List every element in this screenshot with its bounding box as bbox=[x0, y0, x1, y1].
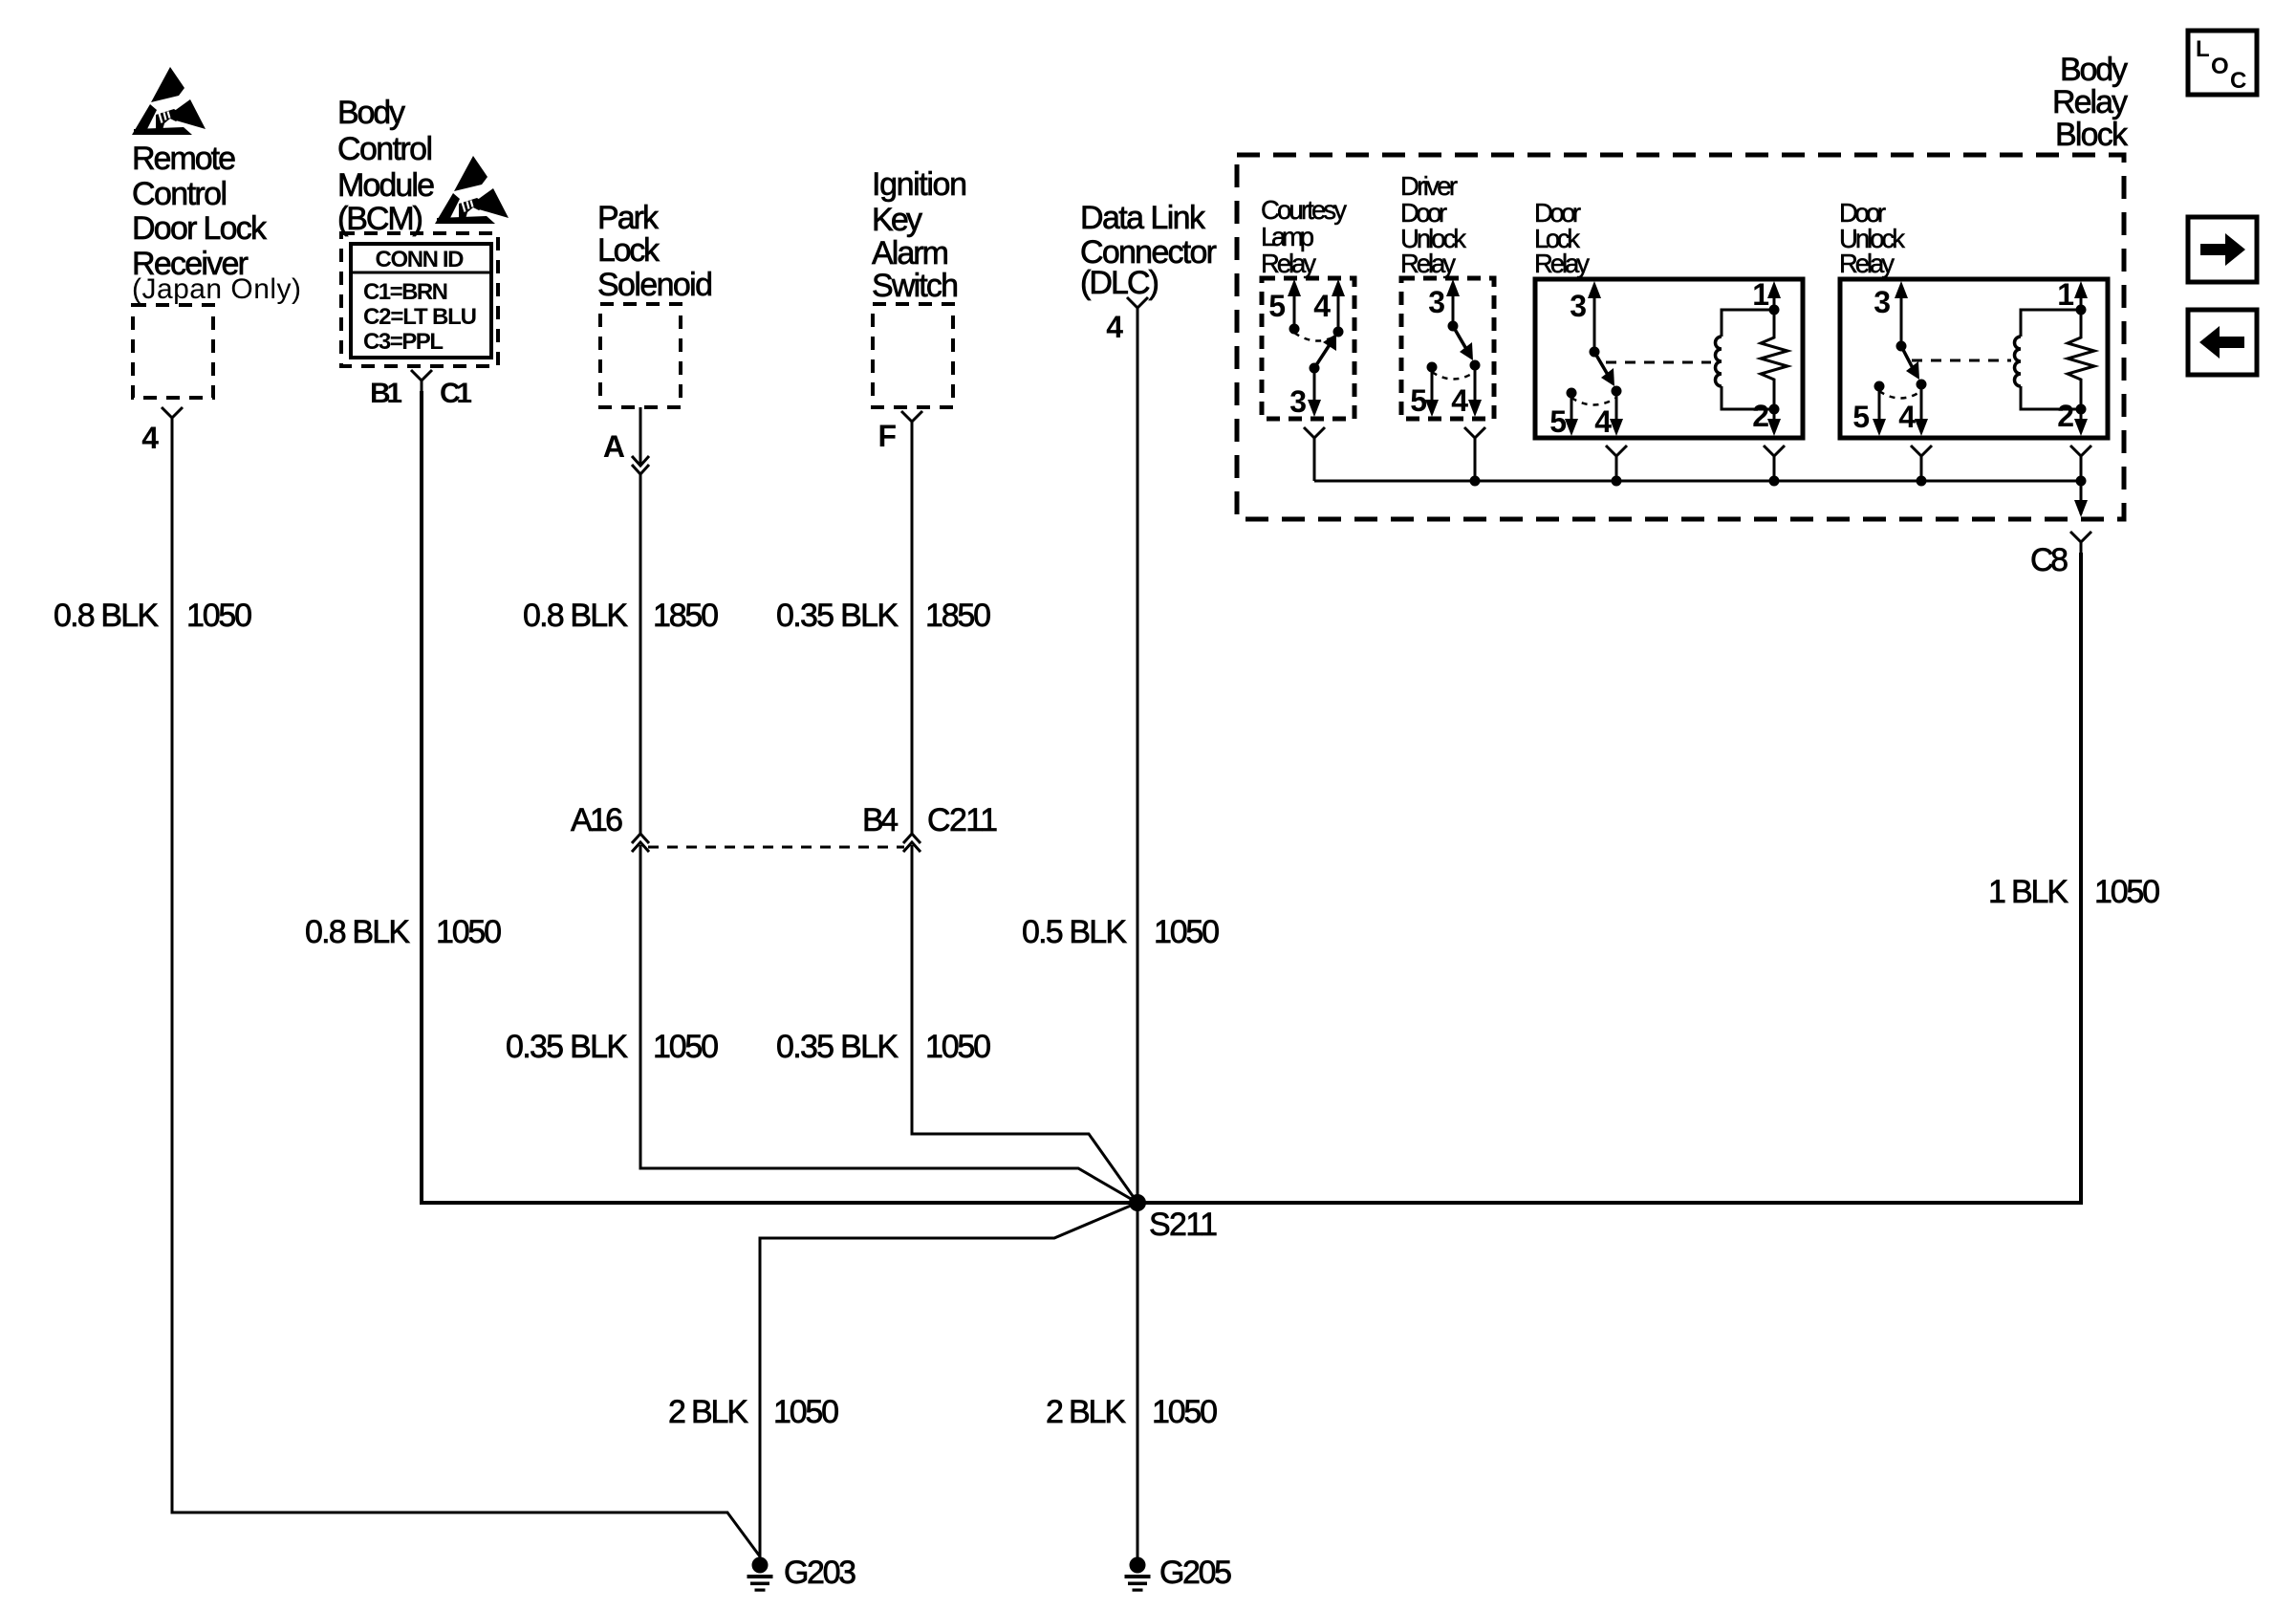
svg-text:(Japan Only): (Japan Only) bbox=[132, 273, 301, 305]
junction dot K2 bus bbox=[1470, 476, 1481, 487]
wire: K3 pin 4 to relay block bus bbox=[1615, 467, 1618, 481]
K4 coil coupling line (dashed) bbox=[1912, 359, 2011, 362]
junction dot K4 pin2 bus bbox=[2076, 476, 2087, 487]
svg-text:Driver: Driver bbox=[1400, 171, 1458, 201]
wire: switch F down to B4 (0.35 BLK 1850) bbox=[911, 432, 914, 834]
K1 pin 4 lead with up arrow bbox=[1332, 279, 1345, 337]
svg-text:5: 5 bbox=[1852, 400, 1870, 434]
junction dot K4 pin4 bus bbox=[1917, 476, 1927, 487]
wire: solenoid lead down to connector A bbox=[639, 407, 642, 466]
ground G205 bbox=[1125, 1557, 1151, 1592]
svg-text:1850: 1850 bbox=[925, 598, 991, 634]
K2 contact coupling arc (dashed) bbox=[1432, 372, 1475, 380]
svg-text:S211: S211 bbox=[1149, 1207, 1218, 1243]
wire: A16 down to S211 (0.35 BLK 1050) bbox=[640, 845, 1137, 1203]
svg-text:3: 3 bbox=[1289, 384, 1307, 419]
CONN ID table bbox=[351, 244, 491, 358]
K4 coil bbox=[2015, 310, 2082, 409]
svg-text:(DLC): (DLC) bbox=[1080, 265, 1159, 301]
svg-text:B4: B4 bbox=[862, 802, 899, 838]
svg-text:Relay: Relay bbox=[1534, 249, 1590, 278]
K4 contact coupling arc (dashed) bbox=[1879, 391, 1921, 399]
svg-text:0.35 BLK: 0.35 BLK bbox=[776, 1029, 899, 1065]
ground G203 bbox=[747, 1557, 773, 1592]
svg-text:0.35 BLK: 0.35 BLK bbox=[506, 1029, 628, 1065]
label: Body Relay Block bbox=[2052, 52, 2129, 153]
K4 pin 1 / pin 2 lead bbox=[2074, 281, 2088, 436]
svg-text:1050: 1050 bbox=[925, 1029, 991, 1065]
connector half Y under K1 pin 3 bbox=[1304, 427, 1325, 448]
wire: S211 branch to ground G203 (2 BLK 1050) bbox=[760, 1203, 1137, 1560]
wire label 0.8 BLK | 1050 (receiver) bbox=[54, 598, 252, 634]
svg-text:Remote: Remote bbox=[132, 141, 236, 177]
wire label 0.5 BLK | 1050 (DLC) bbox=[1022, 914, 1220, 950]
svg-text:Key: Key bbox=[872, 202, 922, 238]
wire: DLC pin 4 down to ground G205 (0.5 BLK / 2 BLK 1050) bbox=[1137, 318, 1139, 1557]
relay K2: Driver Door Unlock Relay (dashed box) bbox=[1401, 278, 1494, 419]
relay block ground bus wire bbox=[1314, 480, 2081, 483]
K1 switch arm with arrowhead bbox=[1310, 334, 1337, 374]
wire label 2 BLK | 1050 (G203 branch) bbox=[668, 1394, 839, 1430]
legend arrow box (right) bbox=[2188, 217, 2257, 282]
inline connector chevrons at A16 bbox=[632, 834, 649, 852]
K3 contact coupling arc (dashed) bbox=[1571, 398, 1616, 405]
svg-text:Block: Block bbox=[2055, 117, 2129, 153]
svg-text:1850: 1850 bbox=[653, 598, 719, 634]
svg-text:B1: B1 bbox=[370, 378, 402, 409]
wire: K2 pin 4 to relay block bus bbox=[1474, 448, 1477, 481]
wire: K3 pin 2 to relay block bus bbox=[1773, 467, 1776, 481]
svg-text:0.5 BLK: 0.5 BLK bbox=[1022, 914, 1127, 950]
wire label 0.35 BLK | 1050 (solenoid lower) bbox=[506, 1029, 719, 1065]
svg-text:C1=BRN: C1=BRN bbox=[363, 279, 448, 305]
label: Driver Door Unlock Relay bbox=[1400, 171, 1466, 278]
svg-text:Lamp: Lamp bbox=[1261, 222, 1314, 251]
svg-text:0.8 BLK: 0.8 BLK bbox=[523, 598, 628, 634]
svg-text:1: 1 bbox=[1752, 277, 1769, 312]
inline connector chevrons at A bbox=[632, 456, 649, 474]
svg-text:4: 4 bbox=[1594, 404, 1612, 439]
wire label 0.8 BLK | 1050 (BCM) bbox=[305, 914, 502, 950]
junction dot K3 pin4 bus bbox=[1612, 476, 1622, 487]
svg-text:Lock: Lock bbox=[597, 232, 661, 269]
K1 contact coupling arc (dashed) bbox=[1294, 333, 1338, 341]
relay K1: Courtesy Lamp Relay (dashed box) bbox=[1262, 278, 1354, 419]
svg-text:Body: Body bbox=[337, 95, 405, 131]
svg-text:C211: C211 bbox=[927, 802, 998, 838]
connector half Y at C8 bbox=[2070, 532, 2091, 553]
K2 pin 3 lead with up arrow bbox=[1446, 279, 1460, 332]
connector half Y at DLC pin 4 bbox=[1127, 297, 1148, 318]
label: Data Link Connector (DLC) bbox=[1080, 200, 1217, 301]
connector half Y under K3 pin 2 bbox=[1764, 446, 1785, 467]
svg-text:Ignition: Ignition bbox=[872, 166, 967, 203]
K4 switch arm with arrowhead bbox=[1901, 346, 1927, 390]
svg-text:C: C bbox=[2230, 68, 2246, 94]
svg-text:1: 1 bbox=[2057, 277, 2074, 312]
svg-text:1050: 1050 bbox=[186, 598, 252, 634]
ESD symbol (Remote Control Door Lock Receiver) bbox=[132, 67, 206, 135]
ESD symbol (BCM) bbox=[435, 156, 509, 224]
connector half Y under K2 pin 4 bbox=[1464, 427, 1485, 448]
K2 pin 4 lead with down arrow bbox=[1468, 365, 1482, 417]
K3 coil coupling line (dashed) bbox=[1606, 361, 1711, 364]
svg-text:Relay: Relay bbox=[2052, 84, 2128, 120]
svg-text:2 BLK: 2 BLK bbox=[668, 1394, 748, 1430]
svg-text:O: O bbox=[2211, 54, 2229, 79]
wire label 0.8 BLK | 1850 (solenoid upper) bbox=[523, 598, 719, 634]
svg-text:5: 5 bbox=[1268, 289, 1286, 323]
svg-text:CONN ID: CONN ID bbox=[376, 247, 465, 272]
svg-text:2 BLK: 2 BLK bbox=[1046, 1394, 1126, 1430]
connector half Y at switch pin F bbox=[901, 411, 922, 432]
svg-text:Data Link: Data Link bbox=[1080, 200, 1206, 236]
K3 coil bbox=[1716, 310, 1774, 409]
svg-text:Switch: Switch bbox=[872, 268, 959, 304]
svg-text:Relay: Relay bbox=[1261, 249, 1316, 278]
svg-text:5: 5 bbox=[1549, 404, 1567, 439]
svg-text:Control: Control bbox=[132, 176, 227, 212]
connector half Y at BCM pin B1/C1 bbox=[411, 370, 432, 391]
connector box: Park Lock Solenoid (dashed) bbox=[600, 304, 681, 407]
connector half Y under K4 pin 4 bbox=[1911, 446, 1932, 467]
label: Ignition Key Alarm Switch bbox=[872, 166, 967, 304]
svg-text:Body: Body bbox=[2060, 52, 2128, 88]
svg-text:4: 4 bbox=[1106, 310, 1123, 344]
svg-text:C3=PPL: C3=PPL bbox=[363, 329, 444, 355]
wire: S211 to Body Relay Block C8 (1 BLK 1050) bbox=[1137, 553, 2081, 1203]
svg-text:Solenoid: Solenoid bbox=[597, 267, 713, 303]
svg-text:Courtesy: Courtesy bbox=[1261, 195, 1347, 225]
label: Remote Control Door Lock Receiver (Japan Only) bbox=[132, 141, 301, 305]
svg-text:Module: Module bbox=[337, 167, 435, 204]
connector half Y at receiver pin 4 bbox=[162, 407, 183, 428]
svg-text:Control: Control bbox=[337, 131, 433, 167]
connector half Y under K3 pin 4 bbox=[1606, 446, 1627, 467]
wire: K1 pin 3 to relay block bus bbox=[1313, 448, 1316, 481]
connector box: Remote Control Door Lock Receiver bbox=[133, 305, 213, 398]
connector box: Ignition Key Alarm Switch (dashed) bbox=[873, 304, 953, 407]
K1 pin 3 lead with down arrow bbox=[1308, 368, 1321, 417]
svg-text:4: 4 bbox=[1898, 400, 1916, 434]
svg-text:3: 3 bbox=[1874, 285, 1891, 319]
K2 pin 5 lead with down arrow bbox=[1425, 362, 1439, 418]
connector C211 dashed coupling line bbox=[648, 846, 904, 849]
svg-text:Alarm: Alarm bbox=[872, 235, 949, 272]
K3 pin 1 / pin 2 lead bbox=[1767, 281, 1781, 436]
K1 pin 5 lead with up arrow bbox=[1288, 279, 1301, 335]
label: Courtesy Lamp Relay bbox=[1261, 195, 1347, 278]
K3 pin 3 lead with up arrow bbox=[1588, 281, 1601, 358]
LOC legend box bbox=[2188, 31, 2257, 95]
K4 pin 3 lead with up arrow bbox=[1895, 281, 1908, 352]
K4 pin 4 lead with down arrow bbox=[1915, 384, 1928, 436]
svg-text:A: A bbox=[603, 429, 625, 464]
wire label 2 BLK | 1050 (G205 branch) bbox=[1046, 1394, 1218, 1430]
svg-text:3: 3 bbox=[1428, 285, 1445, 319]
svg-text:4: 4 bbox=[1451, 383, 1468, 418]
connector half Y under K4 pin 2 bbox=[2070, 446, 2091, 467]
K3 switch arm with arrowhead bbox=[1594, 352, 1622, 397]
svg-text:1050: 1050 bbox=[653, 1029, 719, 1065]
legend arrow box (left) bbox=[2188, 310, 2257, 375]
svg-text:C1: C1 bbox=[440, 378, 472, 409]
svg-text:Door Lock: Door Lock bbox=[132, 210, 268, 247]
label: Body Control Module (BCM) bbox=[337, 95, 435, 237]
K2 switch arm with arrowhead bbox=[1453, 326, 1481, 371]
svg-text:G203: G203 bbox=[784, 1555, 856, 1591]
svg-text:2: 2 bbox=[1752, 399, 1769, 433]
wire label 0.35 BLK | 1050 (switch lower) bbox=[776, 1029, 991, 1065]
svg-text:0.35 BLK: 0.35 BLK bbox=[776, 598, 899, 634]
svg-text:4: 4 bbox=[141, 421, 159, 455]
svg-text:F: F bbox=[877, 419, 897, 453]
K3 pin 5 lead with down arrow bbox=[1565, 388, 1578, 437]
junction dot K3 pin2 bus bbox=[1769, 476, 1780, 487]
wire: bus exit with down arrow at block boundary bbox=[2074, 481, 2088, 517]
wire: receiver pin 4 to ground run (0.8 BLK 1050) bbox=[172, 428, 760, 1556]
svg-text:Park: Park bbox=[597, 200, 660, 236]
svg-text:4: 4 bbox=[1313, 289, 1331, 323]
svg-text:1050: 1050 bbox=[1152, 1394, 1218, 1430]
Body Relay Block boundary (dashed) bbox=[1237, 155, 2124, 519]
K3 resistor bbox=[1761, 330, 1787, 386]
svg-text:1050: 1050 bbox=[2094, 874, 2160, 910]
svg-text:2: 2 bbox=[2057, 399, 2074, 433]
svg-text:Relay: Relay bbox=[1400, 249, 1456, 278]
svg-text:C2=LT BLU: C2=LT BLU bbox=[363, 304, 477, 330]
label: Door Lock Relay bbox=[1534, 198, 1590, 278]
svg-text:A16: A16 bbox=[571, 802, 623, 838]
inline connector chevrons at B4 bbox=[903, 834, 921, 852]
wire label 1 BLK | 1050 (C8) bbox=[1988, 874, 2160, 910]
svg-text:C8: C8 bbox=[2030, 542, 2069, 578]
svg-text:L: L bbox=[2196, 36, 2210, 62]
relay K4: Door Unlock Relay (solid box) bbox=[1840, 279, 2108, 438]
label: Door Unlock Relay bbox=[1839, 198, 1905, 278]
svg-text:5: 5 bbox=[1410, 383, 1427, 418]
relay K3: Door Lock Relay (solid box) bbox=[1535, 279, 1803, 438]
label: Park Lock Solenoid bbox=[597, 200, 713, 303]
wire: K4 pin 4 to relay block bus bbox=[1920, 467, 1923, 481]
K4 pin 5 lead with down arrow bbox=[1873, 381, 1886, 437]
svg-text:0.8 BLK: 0.8 BLK bbox=[54, 598, 159, 634]
K4 resistor bbox=[2068, 330, 2094, 386]
svg-text:1 BLK: 1 BLK bbox=[1988, 874, 2069, 910]
wire: K4 pin 2 to relay block bus bbox=[2080, 467, 2083, 481]
wire: BCM B1 down to S211 (0.8 BLK 1050) bbox=[422, 391, 1137, 1203]
svg-text:Relay: Relay bbox=[1839, 249, 1895, 278]
svg-text:1050: 1050 bbox=[773, 1394, 839, 1430]
wire: B4 down to S211 (0.35 BLK 1050) bbox=[912, 845, 1137, 1203]
svg-text:1050: 1050 bbox=[1154, 914, 1220, 950]
K3 pin 4 lead with down arrow bbox=[1610, 391, 1623, 436]
svg-text:0.8 BLK: 0.8 BLK bbox=[305, 914, 410, 950]
splice S211 bbox=[1129, 1194, 1146, 1211]
svg-text:1050: 1050 bbox=[436, 914, 502, 950]
wire label 0.35 BLK | 1850 (switch upper) bbox=[776, 598, 991, 634]
wire: solenoid connector A down to C211 A16 (0.8 BLK 1850) bbox=[639, 473, 642, 834]
connector box: BCM (dashed) bbox=[341, 233, 498, 366]
svg-text:3: 3 bbox=[1570, 289, 1587, 323]
svg-text:G205: G205 bbox=[1159, 1555, 1232, 1591]
